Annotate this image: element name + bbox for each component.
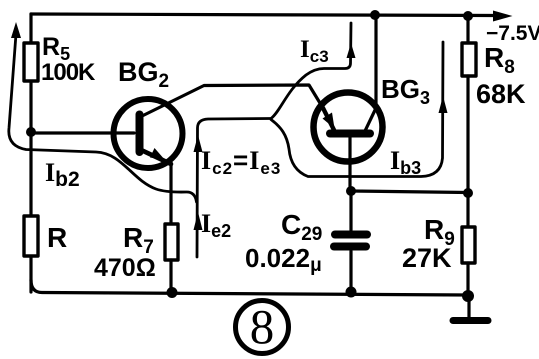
svg-text:C29: C29	[281, 209, 322, 245]
BG3 emitter arrowhead	[323, 113, 335, 129]
resistor R	[24, 216, 38, 256]
svg-text:100K: 100K	[41, 59, 96, 86]
Ib2 arrowhead	[11, 22, 21, 38]
node base BG2	[26, 127, 36, 137]
transistor BG2	[114, 99, 183, 168]
current indicator Ib3 branch	[271, 42, 443, 177]
transistor BG3	[314, 93, 383, 162]
ground	[453, 317, 488, 324]
Ic3 arrowhead	[347, 43, 356, 58]
wire R9 bottom	[466, 263, 469, 296]
resistor R9	[462, 227, 475, 263]
wire C29 bottom	[349, 251, 352, 292]
svg-text:BG2: BG2	[118, 57, 169, 92]
wire BG3 base down	[348, 137, 351, 191]
Ic2 arrowhead	[194, 135, 203, 152]
svg-text:BG3: BG3	[381, 74, 430, 108]
wire base node to R8/R9 column	[351, 191, 468, 193]
current indicator Ib2	[9, 34, 197, 202]
svg-text:Ic2=Ie3: Ic2=Ie3	[201, 145, 281, 178]
node BG3 collector on rail	[370, 10, 380, 20]
wire left rail	[29, 14, 32, 292]
node ground	[462, 290, 474, 302]
svg-text:Ie2: Ie2	[201, 209, 231, 241]
svg-text:Ib2: Ib2	[45, 158, 80, 191]
svg-text:R8: R8	[484, 42, 515, 78]
svg-text:68K: 68K	[476, 79, 526, 109]
capacitor C29 bottom plate	[334, 243, 366, 251]
svg-text:R: R	[47, 222, 67, 253]
wire R7 to bottom rail	[169, 260, 172, 292]
top rail arrowhead	[493, 11, 513, 22]
current indicator Ie2/Ic2 line	[197, 119, 270, 258]
svg-text:R7: R7	[123, 222, 154, 258]
BG3 collector to rail	[365, 15, 376, 131]
svg-text:470Ω: 470Ω	[94, 254, 156, 282]
Ib3 arrowhead	[439, 96, 448, 113]
figure number circle 8	[236, 301, 289, 354]
Ie2 arrowhead	[194, 212, 203, 230]
node BG3 base / C29	[346, 186, 356, 196]
wire R9 top	[466, 193, 469, 227]
wire C29 top	[349, 191, 352, 230]
svg-text:8: 8	[250, 299, 275, 354]
wire R8 bottom	[466, 76, 469, 193]
wire ground stub	[467, 296, 470, 317]
capacitor C29 top plate	[335, 231, 367, 239]
node R8 top on rail	[463, 11, 473, 21]
svg-text:0.022μ: 0.022μ	[245, 243, 322, 276]
node R7 bottom	[167, 287, 178, 298]
wire bottom rail	[31, 280, 468, 295]
resistor R5	[24, 43, 38, 81]
wire top rail -7.5V	[31, 14, 495, 16]
BG3 emitter (from BG2 collector)	[323, 108, 334, 130]
current indicator Ic3 branch	[271, 23, 351, 119]
BG2 emitter arrowhead	[150, 148, 165, 160]
wire R8 top	[466, 16, 469, 43]
BG2 base bar	[136, 115, 144, 153]
svg-text:27K: 27K	[402, 243, 452, 273]
node R8/R9	[463, 188, 473, 198]
node C29 bottom	[346, 287, 357, 298]
resistor R7	[165, 224, 178, 260]
BG3 base bar	[330, 130, 370, 138]
wire BG2 collector to BG3 emitter	[140, 85, 323, 117]
wire base of BG2	[31, 131, 134, 134]
svg-text:Ib3: Ib3	[390, 146, 421, 178]
svg-text:Ic3: Ic3	[300, 36, 329, 66]
resistor R8	[462, 43, 476, 76]
BG2 emitter	[139, 149, 171, 164]
